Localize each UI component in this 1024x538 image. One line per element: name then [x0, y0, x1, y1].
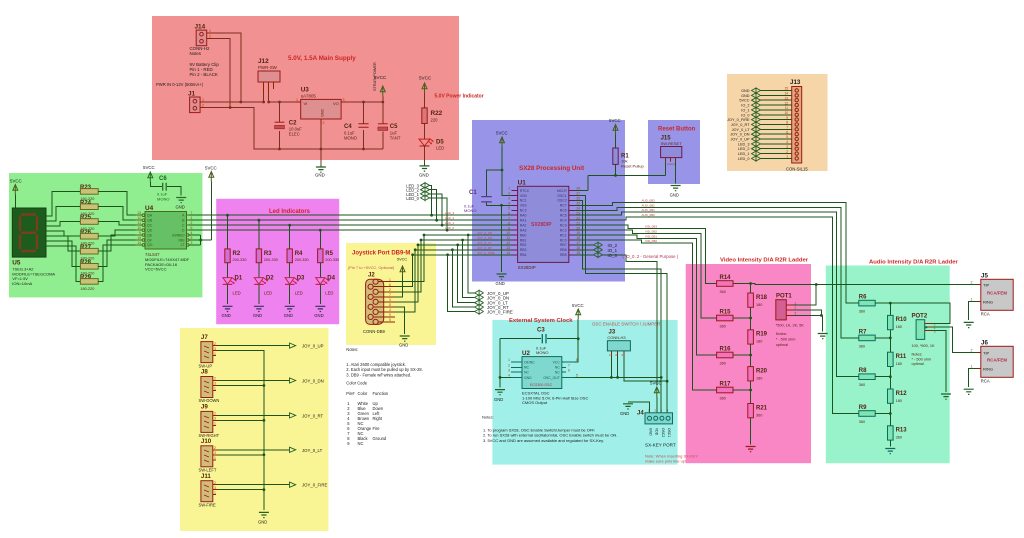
svg-text:360: 360	[720, 325, 726, 329]
region: CON-SIL15 header highlight	[727, 74, 828, 171]
svg-text:2: 2	[202, 104, 204, 108]
wire: VID_0B0 net RC0 to R17	[575, 240, 717, 390]
svg-text:1: 1	[214, 387, 216, 391]
connector J4 SX-KEY port	[637, 409, 676, 448]
svg-text:Notes: Notes	[190, 51, 202, 56]
wire: JOY_0_DN net (RB1)	[420, 239, 512, 298]
connector J2 DB9	[363, 272, 395, 334]
net label tags on joystick rows at U1	[477, 231, 495, 255]
svg-text:5VCC: 5VCC	[205, 166, 217, 171]
svg-text:MONO: MONO	[157, 196, 169, 201]
svg-text:RB6: RB6	[560, 248, 567, 252]
svg-text:R18: R18	[756, 295, 768, 301]
ground at J4	[620, 404, 633, 416]
svg-text:GND: GND	[670, 193, 679, 198]
connector J6 audio RCA	[971, 340, 1014, 384]
svg-text:GND: GND	[524, 376, 532, 380]
svg-text:J5: J5	[981, 273, 988, 280]
svg-text:GND: GND	[399, 343, 408, 348]
svg-text:1: 1	[296, 98, 298, 102]
svg-text:RB2: RB2	[520, 243, 527, 247]
wire: AUD_0B0 net RC4 to R9	[575, 217, 859, 414]
svg-text:3: 3	[934, 329, 936, 333]
svg-text:1: 1	[214, 422, 216, 426]
svg-text:1: 1	[214, 456, 216, 460]
connector J14	[190, 24, 212, 57]
svg-text:R3: R3	[264, 251, 272, 257]
svg-text:RING: RING	[983, 366, 993, 371]
svg-text:uA7805: uA7805	[301, 93, 317, 98]
svg-text:14: 14	[506, 251, 510, 255]
svg-text:POT2: POT2	[912, 314, 928, 320]
resistor R16	[717, 347, 751, 366]
net label LED_1	[406, 190, 443, 226]
wire: J5 ring to ground	[969, 301, 977, 320]
wire: J2 ground pin to GND	[395, 307, 410, 348]
svg-text:Video Intensity D/A R2R Ladder: Video Intensity D/A R2R Ladder	[720, 258, 809, 264]
resistor R5 with LED D4 column	[314, 230, 339, 318]
svg-text:GND: GND	[649, 428, 653, 436]
svg-text:10: 10	[137, 226, 141, 230]
wire: J10 to JOY_0_LT flag and gnd rail	[218, 450, 290, 456]
svg-text:C5: C5	[390, 124, 398, 130]
svg-text:Reset Pullup: Reset Pullup	[621, 163, 644, 168]
connector J1	[188, 91, 205, 113]
resistor R8	[859, 368, 891, 387]
ground at audio ladder	[885, 449, 895, 454]
wire: J2 up net riser	[395, 235, 424, 282]
svg-text:TIP: TIP	[983, 283, 990, 288]
svg-text:SX28DIP: SX28DIP	[518, 265, 536, 270]
svg-text:Joystick Port DB9-M: Joystick Port DB9-M	[352, 251, 410, 257]
svg-text:1: 1	[214, 491, 216, 495]
wire: IO_2 from RB7	[575, 242, 618, 249]
svg-text:360: 360	[756, 413, 762, 417]
wire: J7 to JOY_0_UP flag and gnd rail	[218, 346, 290, 355]
svg-text:U2: U2	[522, 350, 530, 357]
resistor R10	[888, 315, 908, 329]
svg-text:AUD_0B2: AUD_0B2	[642, 203, 656, 207]
wire: J3 pin3 to OSC1 riser	[624, 357, 669, 383]
svg-text:LED_0: LED_0	[738, 157, 750, 161]
wire: audio ladder top to POT2	[890, 303, 950, 324]
wire: MCLR reset net	[575, 161, 666, 190]
wire: IO_1 from RB6	[575, 246, 618, 253]
svg-text:QE: QE	[147, 233, 153, 237]
ground for switch rail	[258, 512, 269, 524]
svg-text:VSS: VSS	[520, 204, 528, 208]
svg-text:JOY_0_DN: JOY_0_DN	[477, 236, 492, 240]
svg-text:RB3: RB3	[520, 248, 527, 252]
svg-text:JOY_0_RT: JOY_0_RT	[477, 246, 492, 250]
potentiometer POT2	[912, 314, 936, 367]
svg-text:Fire: Fire	[373, 426, 381, 431]
svg-text:VID_0B3: VID_0B3	[645, 225, 657, 229]
svg-text:MONO: MONO	[344, 135, 358, 140]
svg-text:JOY_0_DN: JOY_0_DN	[302, 379, 324, 384]
svg-text:GND: GND	[314, 313, 323, 318]
svg-text:QF: QF	[147, 238, 153, 242]
svg-text:Color: Color	[358, 391, 368, 396]
svg-text:14: 14	[784, 92, 788, 96]
ground at POT1	[818, 334, 828, 339]
svg-text:12: 12	[506, 241, 510, 245]
resistor R13	[888, 426, 908, 440]
capacitor C6	[143, 165, 186, 210]
svg-text:3. 5VCC and GND are assumed av: 3. 5VCC and GND are assumed available an…	[483, 438, 604, 443]
svg-text:360: 360	[720, 397, 726, 401]
power flag 5VCC for U1	[496, 131, 511, 196]
svg-text:13: 13	[784, 96, 788, 100]
svg-text:1: 1	[214, 352, 216, 356]
svg-text:MCLR: MCLR	[557, 189, 567, 193]
IC U1 SX28DIP	[506, 180, 580, 271]
svg-text:C3: C3	[537, 328, 545, 334]
wire: J11 to JOY_0_FIRE flag and gnd rail	[218, 485, 290, 491]
resistor R25	[80, 215, 98, 231]
svg-text:JOY_0_LT: JOY_0_LT	[477, 241, 491, 245]
svg-text:D4: D4	[327, 276, 335, 282]
svg-text:3. DB9 - Female w/f wires atta: 3. DB9 - Female w/f wires attached.	[346, 372, 411, 377]
switch J7 SW-UP	[199, 334, 219, 369]
svg-text:R16: R16	[720, 347, 732, 353]
svg-text:R21: R21	[756, 405, 768, 411]
svg-text:3: 3	[214, 382, 216, 386]
wire: VID_0B2 net RC2 to R15	[575, 230, 717, 318]
svg-text:2: 2	[214, 412, 216, 416]
resistor R17	[717, 382, 751, 401]
svg-text:9: 9	[786, 116, 788, 120]
svg-text:POT1: POT1	[776, 294, 792, 300]
resistor R28	[80, 260, 98, 276]
svg-text:180: 180	[896, 325, 902, 329]
svg-text:JOY_0_FIRE: JOY_0_FIRE	[727, 118, 750, 122]
svg-text:SX28DIP: SX28DIP	[531, 222, 552, 228]
wire: J8 to JOY_0_DN flag and gnd rail	[218, 381, 290, 387]
svg-text:RC4: RC4	[560, 219, 567, 223]
wire: oscillator output to J3 and OSC2 riser	[575, 357, 663, 379]
svg-text:CONN-H3: CONN-H3	[607, 335, 626, 340]
svg-text:Reset Button: Reset Button	[658, 127, 696, 133]
switch J12 PWR-SW	[258, 58, 280, 93]
wire: IO_0 from RB5	[575, 251, 657, 385]
svg-text:LED: LED	[325, 291, 333, 296]
svg-text:SW-FIRE: SW-FIRE	[199, 502, 216, 507]
svg-text:GND: GND	[284, 313, 293, 318]
resistor R3 with LED D2 column	[253, 220, 278, 318]
svg-text:GND: GND	[741, 94, 750, 98]
svg-text:NC: NC	[555, 371, 560, 375]
svg-text:GND: GND	[320, 109, 324, 117]
svg-text:JOY_0_LT: JOY_0_LT	[732, 128, 751, 132]
svg-text:360: 360	[720, 290, 726, 294]
svg-text:3: 3	[508, 197, 510, 201]
ground below U3	[315, 165, 326, 178]
svg-text:Notes:: Notes:	[482, 415, 494, 420]
svg-text:Notes:: Notes:	[776, 332, 787, 336]
net label JOY_0_LT at U1	[475, 299, 508, 306]
ground at video ladder	[746, 447, 756, 452]
ground below J15	[670, 186, 681, 198]
wire: POT2 low end to ground	[932, 331, 946, 392]
svg-text:C4: C4	[344, 124, 352, 130]
svg-text:6: 6	[508, 211, 510, 215]
svg-text:R2: R2	[233, 251, 241, 257]
resistor R11	[888, 352, 907, 366]
svg-text:R17: R17	[720, 382, 732, 388]
svg-text:9: 9	[508, 226, 510, 230]
svg-text:2: 2	[389, 288, 391, 292]
wire: LED/BCD bus (LED_3..LED_0 nets)	[189, 214, 511, 232]
svg-text:2: 2	[786, 150, 788, 154]
wire: U4 lamp-test pins to 5VCC	[189, 182, 211, 245]
svg-text:JOY_0_UP: JOY_0_UP	[302, 344, 324, 349]
svg-text:GND: GND	[253, 313, 262, 318]
wire: switch common ground rail	[263, 355, 265, 510]
svg-text:OE/NC: OE/NC	[524, 360, 535, 364]
svg-text:RC7: RC7	[560, 204, 567, 208]
net label JOY_0_FIRE at J11	[290, 482, 328, 488]
svg-text:SW-DOWN: SW-DOWN	[199, 398, 220, 403]
svg-text:CONN-DB9: CONN-DB9	[363, 329, 386, 334]
svg-text:RCA: RCA	[981, 379, 990, 384]
svg-text:LED_3: LED_3	[738, 142, 750, 146]
svg-text:1 (mom): 1 (mom)	[665, 162, 676, 166]
svg-text:TANT: TANT	[390, 135, 401, 140]
svg-text:R20: R20	[756, 368, 768, 374]
wire: JOY_0_LT net (RB2)	[417, 244, 512, 303]
svg-text:ION=10mA: ION=10mA	[12, 281, 32, 286]
svg-text:2: 2	[214, 481, 216, 485]
svg-text:J10: J10	[201, 438, 212, 445]
svg-text:SX-KEY PORT: SX-KEY PORT	[645, 443, 676, 448]
switch J9 SW-RIGHT	[199, 404, 220, 439]
svg-text:LED_2: LED_2	[738, 147, 750, 151]
svg-text:PWR-SW: PWR-SW	[258, 65, 278, 70]
net label JOY_0_UP at U1	[475, 290, 509, 297]
svg-text:3: 3	[508, 368, 510, 372]
svg-text:5: 5	[389, 318, 391, 322]
wire: JOY_0_FIRE net (RB4)	[411, 253, 511, 311]
region: joystick switches highlight	[180, 328, 329, 531]
svg-text:6: 6	[389, 283, 391, 287]
svg-text:OSC ENABLE SWITCH / JUMPER: OSC ENABLE SWITCH / JUMPER	[592, 322, 660, 327]
resistor R1 reset pullup	[609, 118, 644, 168]
wire: POT1 low end to ground	[822, 315, 824, 331]
svg-text:C1: C1	[469, 190, 477, 196]
switch J8 SW-DOWN	[199, 369, 220, 404]
resistor R4 with LED D3 column	[284, 225, 309, 318]
region: 5.0V 1.5A Main Supply highlight	[152, 16, 459, 160]
connector J13 CON-SIL15	[786, 79, 808, 172]
svg-text:J14: J14	[195, 24, 206, 31]
svg-text:2: 2	[323, 121, 325, 125]
svg-text:VI: VI	[304, 101, 308, 106]
wire: POT2 wiper to J6 TIP	[932, 327, 976, 353]
wire: OSC2 net from U1 to J4	[575, 200, 662, 413]
svg-text:optimal: optimal	[912, 362, 924, 366]
svg-text:Notes:: Notes:	[346, 347, 358, 352]
svg-text:5VCC: 5VCC	[143, 165, 155, 170]
svg-text:360: 360	[859, 310, 865, 314]
wire: J2 right net riser	[395, 250, 415, 312]
svg-text:3: 3	[191, 241, 193, 245]
svg-text:RCA/FEM: RCA/FEM	[987, 291, 1007, 296]
net label JOY_0_RT at U1	[475, 304, 509, 311]
svg-text:5: 5	[508, 207, 510, 211]
wire: J9 to JOY_0_RT flag and gnd rail	[218, 415, 290, 421]
net label JOY_0_UP at J7	[290, 343, 324, 349]
svg-text:VDD: VDD	[520, 194, 528, 198]
svg-text:15: 15	[784, 87, 788, 91]
svg-text:GND: GND	[222, 313, 231, 318]
svg-text:NC2: NC2	[520, 209, 527, 213]
svg-text:R10: R10	[896, 317, 908, 323]
svg-text:STRAT=POWER: STRAT=POWER	[373, 62, 377, 91]
switch J10 SW-LEFT	[199, 438, 219, 473]
svg-text:NC: NC	[524, 366, 529, 370]
svg-text:VID_0B0: VID_0B0	[645, 239, 657, 243]
svg-text:2: 2	[209, 35, 211, 39]
IC U4 74LS47	[135, 205, 192, 272]
svg-text:QA: QA	[147, 214, 153, 218]
svg-text:R14: R14	[720, 275, 732, 281]
region: External System Clock highlight	[492, 320, 677, 465]
svg-text:180: 180	[756, 340, 762, 344]
svg-text:RC3: RC3	[560, 223, 567, 227]
svg-text:4: 4	[508, 202, 510, 206]
svg-text:6: 6	[786, 130, 788, 134]
svg-text:GND: GND	[496, 281, 505, 286]
svg-text:J8: J8	[201, 369, 208, 376]
svg-text:RA1: RA1	[520, 219, 527, 223]
svg-text:180: 180	[756, 303, 762, 307]
svg-text:5VCC: 5VCC	[572, 303, 584, 308]
svg-text:MONO: MONO	[464, 208, 476, 213]
net label JOY_0_DN at J8	[290, 378, 324, 384]
svg-text:LED_0: LED_0	[445, 226, 455, 230]
svg-text:360: 360	[896, 436, 902, 440]
svg-text:J12: J12	[258, 58, 269, 65]
svg-text:RA0: RA0	[520, 214, 527, 218]
svg-text:3: 3	[214, 347, 216, 351]
wire: AUD_0B2 net RC6 to R7	[575, 207, 859, 338]
svg-text:QB: QB	[147, 219, 153, 223]
svg-text:Pin#: Pin#	[346, 391, 355, 396]
svg-text:10: 10	[506, 231, 510, 235]
capacitor C2	[275, 121, 303, 137]
power flag 5VCC for display	[10, 179, 22, 209]
connector J3 CONN-H3	[607, 330, 630, 358]
svg-text:SX28 Processing Unit: SX28 Processing Unit	[519, 165, 585, 172]
svg-text:MONO: MONO	[536, 350, 548, 355]
svg-text:NC: NC	[358, 441, 364, 446]
svg-text:5VCC: 5VCC	[496, 131, 508, 136]
wire: J2 fire net riser	[395, 255, 413, 287]
svg-text:J6: J6	[981, 340, 988, 347]
svg-text:6: 6	[191, 226, 193, 230]
resistor R14	[717, 275, 751, 294]
resistor R19	[748, 330, 768, 344]
wire: J2 left net riser	[395, 245, 418, 302]
svg-text:CON-SIL15: CON-SIL15	[786, 167, 808, 172]
wire: JOY_0_UP net (RB0)	[423, 234, 512, 293]
resistor R7	[859, 329, 891, 348]
svg-text:VID_0B1: VID_0B1	[645, 234, 657, 238]
svg-text:R12: R12	[896, 391, 908, 397]
svg-text:GND: GND	[494, 397, 503, 402]
LED D5	[419, 139, 444, 164]
svg-text:* - 500 ohm: * - 500 ohm	[912, 357, 932, 361]
wire: AUD_0B3 net RC7 to R6	[575, 202, 859, 303]
region: Audio Intensity D/A R2R Ladder highlight	[826, 266, 950, 464]
svg-text:RB4: RB4	[520, 253, 527, 257]
svg-text:1: 1	[971, 364, 973, 368]
svg-text:3: 3	[214, 417, 216, 421]
svg-text:2: 2	[214, 342, 216, 346]
wire: POT1 wiper join	[793, 310, 823, 317]
svg-text:J4: J4	[637, 411, 644, 417]
svg-text:J13: J13	[790, 79, 801, 86]
svg-text:BI/RBO: BI/RBO	[172, 233, 184, 237]
resistor R2 with LED D1 column	[222, 215, 247, 318]
svg-text:LED: LED	[233, 291, 241, 296]
7-segment display U5	[12, 208, 55, 286]
svg-text:J9: J9	[201, 404, 208, 411]
svg-text:5VCC: 5VCC	[739, 99, 749, 103]
svg-text:GND: GND	[741, 89, 750, 93]
wire: C3 left to U2 gnd	[499, 339, 511, 388]
svg-text:5.0V Power Indicator: 5.0V Power Indicator	[435, 94, 484, 100]
svg-text:180-220: 180-220	[80, 287, 94, 291]
svg-text:7: 7	[191, 211, 193, 215]
svg-text:make sure pins line up!: make sure pins line up!	[645, 459, 686, 464]
svg-text:R9: R9	[859, 405, 867, 411]
svg-text:LED_1: LED_1	[738, 152, 750, 156]
svg-text:3: 3	[214, 486, 216, 490]
resistor R20	[748, 367, 768, 381]
svg-text:180: 180	[896, 362, 902, 366]
svg-text:180: 180	[756, 376, 762, 380]
svg-text:4: 4	[508, 374, 510, 378]
svg-text:RC6: RC6	[560, 209, 567, 213]
svg-text:RBI: RBI	[179, 238, 185, 242]
svg-text:C6: C6	[159, 176, 167, 182]
svg-text:2: 2	[971, 281, 973, 285]
svg-text:8: 8	[576, 358, 578, 362]
svg-text:NC: NC	[555, 366, 560, 370]
svg-text:AUD_0B3: AUD_0B3	[642, 198, 656, 202]
svg-text:OSC_OUT: OSC_OUT	[543, 376, 559, 380]
svg-text:( IO_0..2 - General Purpose ): ( IO_0..2 - General Purpose )	[623, 254, 679, 259]
svg-text:R8: R8	[859, 368, 867, 374]
net label tags AUD_0B3..0	[642, 198, 656, 216]
power flag 5VCC for J4	[650, 381, 662, 414]
svg-text:JOY_0_UP: JOY_0_UP	[731, 138, 750, 142]
svg-text:180: 180	[896, 399, 902, 403]
resistor R26	[80, 230, 98, 246]
svg-text:5: 5	[191, 236, 193, 240]
power flag 5VCC for J2	[395, 266, 405, 297]
wire: OSC1 net from U1 to J4	[575, 196, 667, 414]
svg-text:8: 8	[786, 121, 788, 125]
wire: J15 to ground	[675, 161, 677, 183]
net label tags on bus at U1	[445, 211, 455, 230]
svg-text:RING: RING	[983, 299, 993, 304]
svg-text:* - 500 ohm: * - 500 ohm	[776, 338, 796, 342]
svg-text:JOY_0_FIRE: JOY_0_FIRE	[487, 310, 513, 315]
region: Led Indicators highlight	[216, 199, 339, 324]
